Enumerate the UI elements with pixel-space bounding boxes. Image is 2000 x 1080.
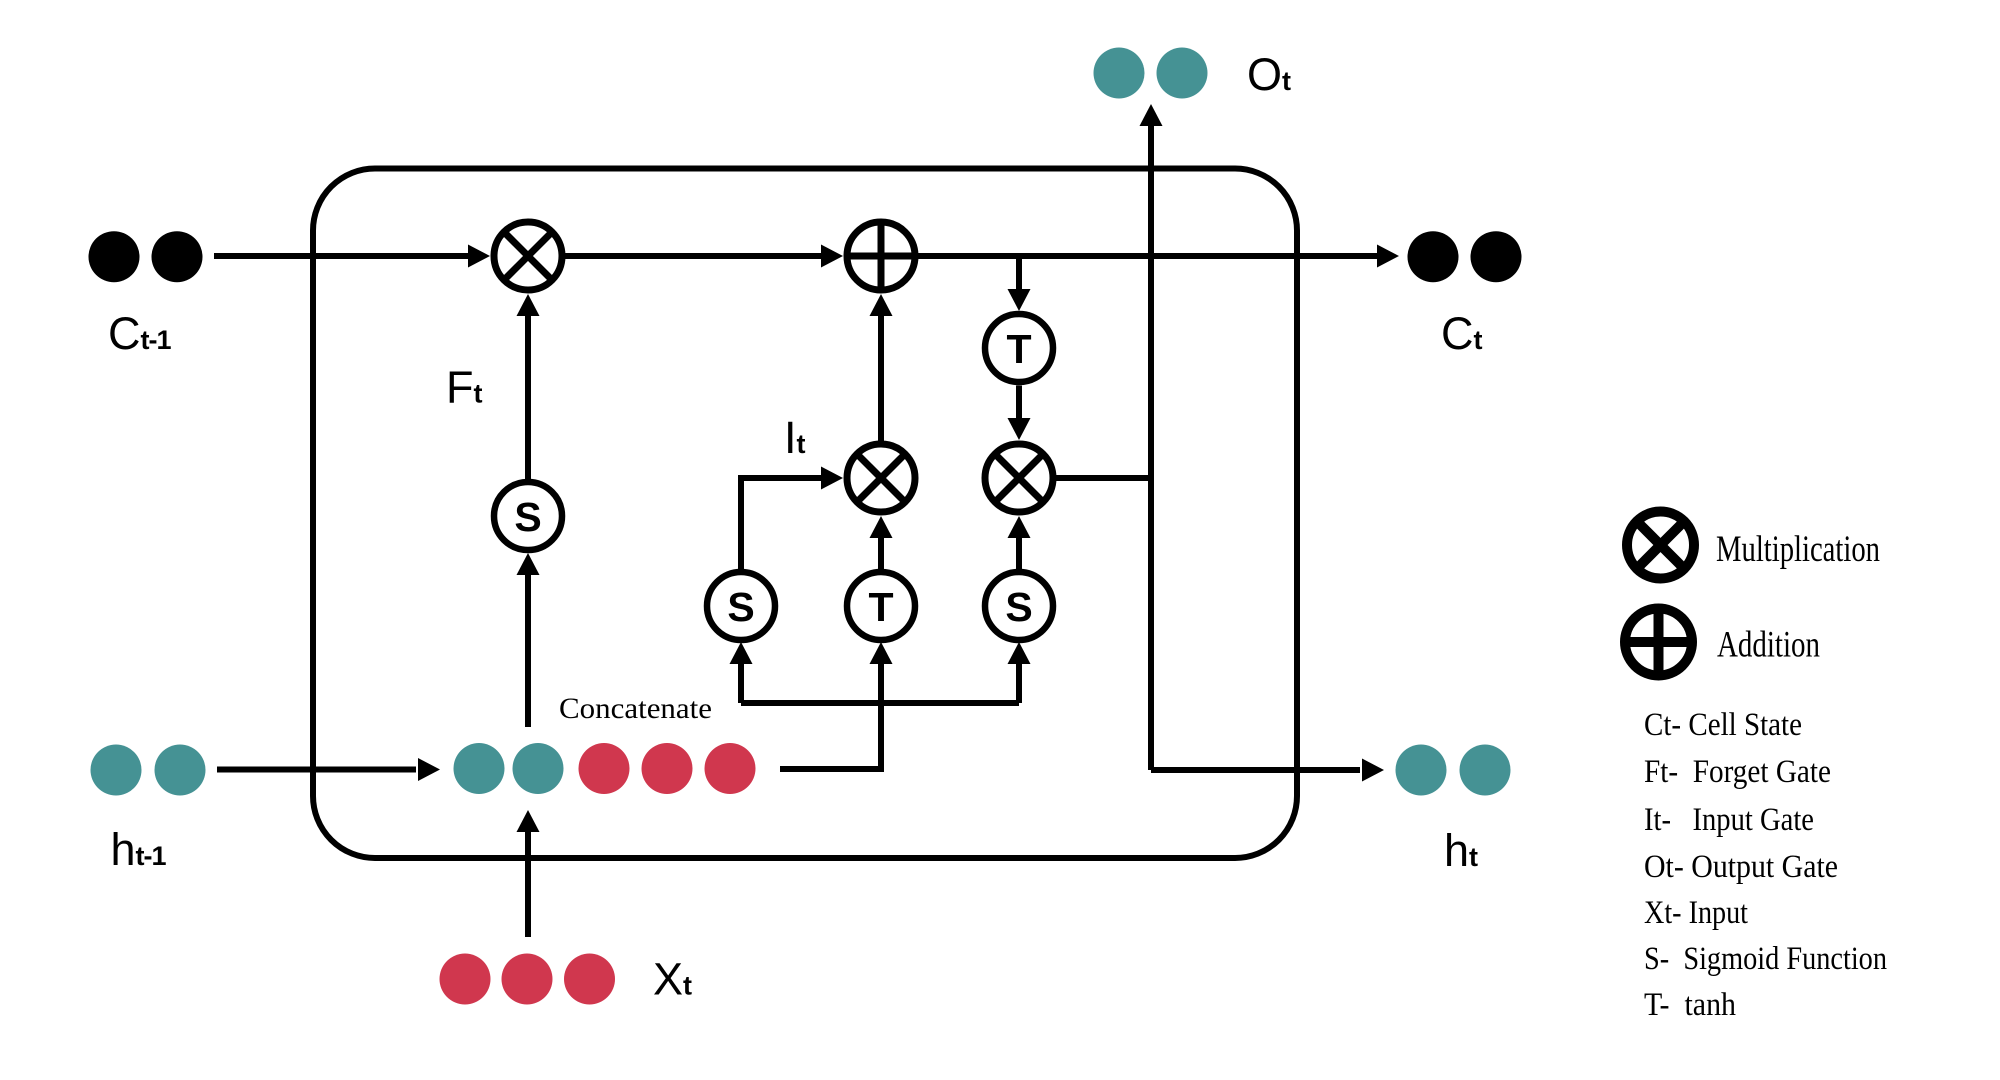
node: ht-1 input dots [91, 745, 206, 796]
svg-text:S: S [514, 494, 541, 540]
wire: output vertical line up to Ot [1148, 126, 1154, 770]
legend multiply symbol [1627, 512, 1694, 579]
svg-text:It: It [784, 412, 806, 463]
arrowhead into addition [821, 245, 843, 268]
svg-text:S- Sigmoid Function: S- Sigmoid Function [1644, 941, 1887, 977]
wire: cell-state line segment from addition to Ct dots [918, 253, 1379, 259]
arrowhead ht output [1362, 759, 1384, 782]
sigmoid gate S (left) [707, 572, 775, 640]
wire: ht-1 input line [217, 767, 416, 773]
wire: branch stub up to left sigmoid [738, 660, 744, 703]
arrowhead Ot output [1140, 104, 1163, 126]
svg-text:Addition: Addition [1717, 624, 1820, 665]
svg-text:S: S [1005, 584, 1032, 630]
node: concatenate row dots [454, 743, 756, 794]
svg-text:Ct: Ct [1441, 308, 1483, 359]
arrowhead ht-1 into concat row [418, 758, 440, 781]
wire: gate feed branch horizontal [741, 700, 1019, 706]
svg-text:Concatenate: Concatenate [559, 692, 712, 725]
arrowhead branch into top tanh [1008, 289, 1031, 311]
wire: It elbow from left sigmoid to input multiply [741, 478, 823, 571]
addition node [844, 219, 918, 293]
svg-text:Xt: Xt [653, 954, 692, 1005]
svg-text:S: S [727, 584, 754, 630]
wire: output elbow to ht dots [1151, 767, 1360, 773]
node: Ct output dots [1408, 231, 1522, 282]
arrowhead branch into left sigmoid [730, 642, 753, 664]
LSTM cell box [313, 169, 1297, 859]
node: Ot output dots [1094, 48, 1208, 99]
tanh gate T (middle) [847, 572, 915, 640]
svg-text:Ft: Ft [446, 362, 483, 413]
multiply node: input gate [847, 444, 915, 512]
arrowhead branch into middle tanh [870, 642, 893, 664]
svg-text:Ct-1: Ct-1 [108, 308, 171, 359]
sigmoid gate S (forget) [494, 482, 562, 550]
svg-text:Xt- Input: Xt- Input [1644, 895, 1748, 931]
legend list [1644, 707, 1887, 1023]
svg-text:Multiplication: Multiplication [1716, 528, 1880, 569]
svg-text:It- Input Gate: It- Input Gate [1644, 802, 1814, 838]
wire: branch from cell-state line down to top tanh [1016, 256, 1022, 290]
arrowhead input multiply into addition [870, 294, 893, 316]
svg-text:Ct- Cell State: Ct- Cell State [1644, 707, 1802, 743]
svg-text:ht: ht [1444, 825, 1478, 876]
node: ht output dots [1396, 745, 1511, 796]
arrowhead branch into right sigmoid [1008, 642, 1031, 664]
arrowhead Ft into forget multiply [517, 294, 540, 316]
wire: middle tanh up to input multiply [878, 534, 884, 571]
arrowhead right sigmoid into output multiply [1008, 516, 1031, 538]
wire: concat row up to forget sigmoid [525, 574, 531, 727]
legend addition symbol [1621, 604, 1697, 680]
wire: right sigmoid up to output multiply [1016, 534, 1022, 571]
wire: output multiply to output vertical [1056, 475, 1154, 481]
svg-text:Ot- Output Gate: Ot- Output Gate [1644, 849, 1838, 885]
wire: branch stub up to right sigmoid [1016, 660, 1022, 703]
arrowhead at Ct output [1377, 245, 1399, 268]
svg-text:T- tanh: T- tanh [1644, 987, 1736, 1023]
arrowhead Xt into concat row [517, 810, 540, 832]
wire: Xt input vertical [525, 831, 531, 937]
sigmoid gate S (right) [985, 572, 1053, 640]
multiply node: output gate [985, 444, 1053, 512]
wire: concat elbow to middle tanh feed [780, 660, 881, 769]
multiply node: forget gate [494, 222, 562, 290]
node: Ct-1 input dots [89, 231, 203, 282]
arrowhead into forget multiply [468, 245, 490, 268]
wire: top tanh down to output multiply [1016, 386, 1022, 420]
svg-text:T: T [868, 584, 893, 630]
svg-text:T: T [1006, 326, 1031, 372]
wire: cell-state line segment from forget multiply to addition [565, 253, 824, 259]
arrowhead middle tanh into input multiply [870, 516, 893, 538]
arrowhead It into input multiply [821, 467, 843, 490]
wire: input multiply up to addition [878, 312, 884, 441]
wire: cell-state line segment from Ct-1 dots to forget multiply [214, 253, 471, 259]
tanh gate T (top) [985, 314, 1053, 382]
arrowhead into forget sigmoid [517, 553, 540, 575]
svg-text:ht-1: ht-1 [111, 824, 167, 875]
node: Xt input dots [440, 954, 616, 1005]
wire: forget gate Ft vertical from sigmoid up to multiply [525, 312, 531, 481]
svg-text:Ot: Ot [1247, 49, 1291, 100]
arrowhead top tanh into output multiply [1008, 418, 1031, 440]
svg-text:Ft- Forget Gate: Ft- Forget Gate [1644, 754, 1831, 790]
